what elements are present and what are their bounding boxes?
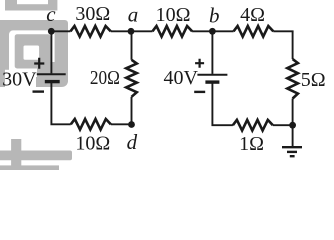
- svg-text:5Ω: 5Ω: [301, 69, 326, 91]
- wire node a down to 20ohm: [131, 31, 133, 60]
- wire 4ohm to top-right corner: [273, 30, 293, 32]
- svg-text:1Ω: 1Ω: [239, 133, 264, 155]
- svg-text:20Ω: 20Ω: [90, 67, 120, 89]
- svg-text:b: b: [209, 4, 220, 28]
- resistor 30ohm (top left): [71, 26, 111, 37]
- svg-text:10Ω: 10Ω: [156, 4, 191, 26]
- watermark top-left mini ring: [5, 0, 57, 11]
- wire node c down to battery V1: [50, 31, 52, 73]
- resistor 1ohm (bottom right): [233, 120, 273, 131]
- watermark big ring with inner square and hole: [0, 20, 68, 93]
- battery V1 30V: [37, 74, 66, 81]
- wire 1ohm to bottom-right node: [273, 124, 293, 126]
- node a: [128, 28, 135, 35]
- battery V2 40V: [197, 75, 227, 82]
- svg-text:a: a: [128, 2, 139, 26]
- wire right side down to 5ohm: [292, 31, 294, 60]
- wire 10ohm to node b: [192, 30, 234, 32]
- node c: [48, 28, 55, 35]
- svg-text:c: c: [46, 2, 56, 26]
- node bottom right: [289, 122, 296, 129]
- svg-text:d: d: [127, 130, 138, 154]
- node b: [209, 28, 216, 35]
- svg-text:10Ω: 10Ω: [75, 133, 110, 155]
- resistor 10ohm (top middle): [153, 26, 193, 37]
- resistor 5ohm (vertical right): [287, 59, 298, 98]
- wire node b down to battery V2: [211, 31, 213, 74]
- resistor 10ohm (bottom left): [71, 119, 111, 130]
- wire c to 30ohm resistor: [51, 30, 70, 32]
- ground: [282, 125, 302, 156]
- minus sign V2: [194, 91, 205, 93]
- svg-text:30V: 30V: [2, 69, 37, 91]
- wire 10ohm to node d: [111, 123, 132, 125]
- wire 30ohm to node a: [111, 30, 153, 32]
- resistor 4ohm (top right): [234, 26, 274, 37]
- wire battery V1 down and right to 10ohm: [51, 82, 70, 125]
- wire battery V2 down and right to 1ohm: [212, 82, 233, 125]
- resistor 20ohm (vertical): [126, 60, 137, 97]
- plus sign V2: [195, 59, 204, 68]
- wire 20ohm down to node d: [131, 97, 133, 125]
- svg-text:4Ω: 4Ω: [240, 4, 265, 26]
- svg-text:40V: 40V: [163, 67, 198, 89]
- node d: [128, 121, 135, 128]
- watermark bottom-left bars: [0, 139, 72, 173]
- minus sign V1: [33, 90, 45, 92]
- svg-text:30Ω: 30Ω: [75, 3, 110, 25]
- plus sign V1: [34, 58, 44, 69]
- wire 5ohm down to bottom-right node: [292, 99, 294, 126]
